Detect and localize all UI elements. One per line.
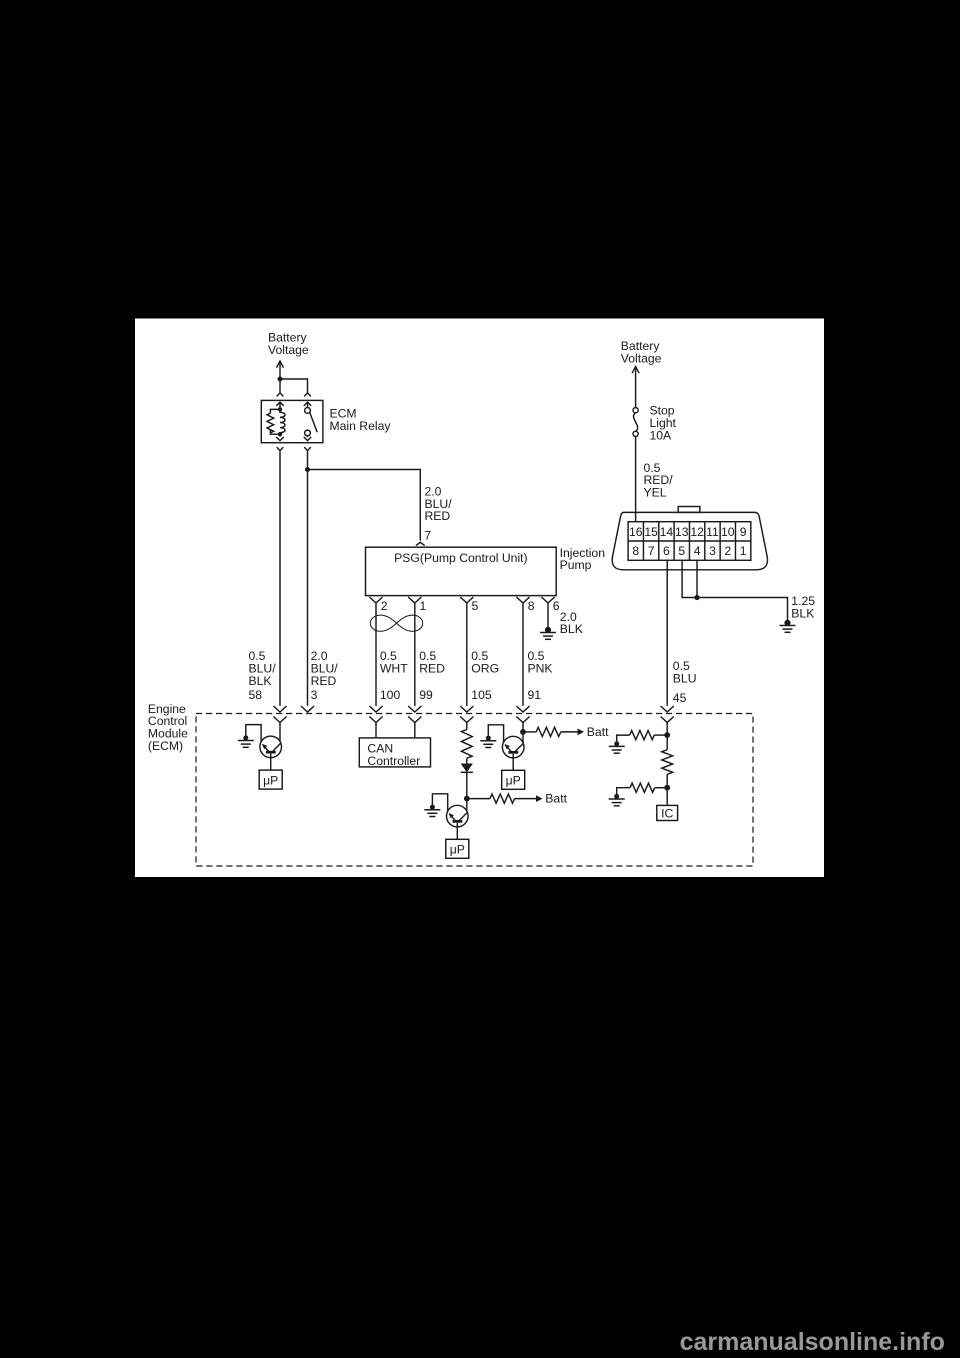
svg-text:μP: μP — [506, 774, 521, 788]
svg-text:6: 6 — [663, 544, 670, 558]
svg-text:PSG(Pump Control Unit): PSG(Pump Control Unit) — [394, 551, 527, 565]
svg-text:μP: μP — [263, 774, 278, 788]
svg-text:2: 2 — [381, 599, 388, 613]
svg-text:Controller: Controller — [367, 754, 420, 768]
svg-text:13: 13 — [675, 525, 689, 539]
svg-text:Batt: Batt — [545, 792, 567, 806]
svg-text:RED: RED — [425, 509, 451, 523]
svg-text:ORG: ORG — [471, 662, 499, 676]
svg-text:1: 1 — [420, 599, 427, 613]
svg-text:3: 3 — [709, 544, 716, 558]
svg-text:10A: 10A — [650, 428, 673, 442]
svg-text:Pump: Pump — [560, 558, 592, 572]
svg-text:4: 4 — [694, 544, 701, 558]
svg-text:105: 105 — [471, 688, 492, 702]
svg-text:carmanualsonline.info: carmanualsonline.info — [680, 1328, 945, 1356]
svg-text:12: 12 — [690, 525, 704, 539]
svg-text:Voltage: Voltage — [621, 351, 662, 365]
svg-text:100: 100 — [380, 688, 401, 702]
svg-text:16: 16 — [629, 525, 643, 539]
svg-text:BLK: BLK — [249, 674, 272, 688]
svg-text:14: 14 — [660, 525, 674, 539]
svg-text:WHT: WHT — [380, 662, 408, 676]
svg-text:BLK: BLK — [791, 607, 814, 621]
svg-text:μP: μP — [450, 843, 465, 857]
svg-text:15: 15 — [644, 525, 658, 539]
svg-text:45: 45 — [673, 691, 687, 705]
svg-text:7: 7 — [424, 529, 431, 543]
svg-text:5: 5 — [678, 544, 685, 558]
svg-text:3: 3 — [311, 688, 318, 702]
svg-text:5: 5 — [472, 599, 479, 613]
svg-text:6: 6 — [553, 599, 560, 613]
svg-text:9: 9 — [740, 525, 747, 539]
svg-text:PNK: PNK — [528, 662, 553, 676]
svg-text:IC: IC — [661, 806, 673, 820]
svg-text:8: 8 — [528, 599, 535, 613]
svg-text:BLU: BLU — [673, 671, 697, 685]
svg-text:BLK: BLK — [560, 622, 583, 636]
svg-text:2: 2 — [724, 544, 731, 558]
svg-text:1: 1 — [740, 544, 747, 558]
svg-text:11: 11 — [706, 525, 719, 539]
svg-text:RED: RED — [419, 662, 445, 676]
svg-text:7: 7 — [648, 544, 655, 558]
svg-text:8: 8 — [632, 544, 639, 558]
svg-text:(ECM): (ECM) — [148, 739, 183, 753]
svg-text:10: 10 — [721, 525, 735, 539]
svg-text:Main Relay: Main Relay — [330, 419, 392, 433]
svg-text:YEL: YEL — [644, 486, 667, 500]
svg-text:Voltage: Voltage — [268, 343, 309, 357]
svg-text:99: 99 — [419, 688, 433, 702]
svg-text:91: 91 — [528, 688, 542, 702]
svg-text:58: 58 — [249, 688, 263, 702]
svg-text:Batt: Batt — [587, 725, 609, 739]
svg-text:RED: RED — [311, 674, 337, 688]
